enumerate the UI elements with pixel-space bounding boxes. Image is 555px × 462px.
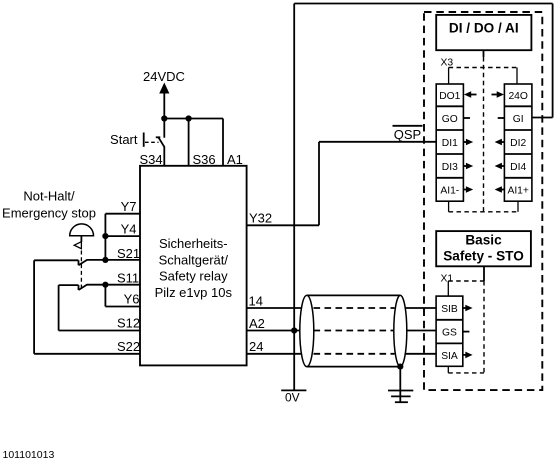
svg-text:Y7: Y7 bbox=[121, 199, 137, 214]
emergency stop mushroom actuator bbox=[70, 224, 94, 291]
stub GI bbox=[498, 117, 505, 119]
bus dashed center line bbox=[483, 57, 485, 212]
svg-text:24O: 24O bbox=[508, 91, 527, 102]
ground earth symbol bbox=[388, 391, 413, 403]
svg-text:Start: Start bbox=[110, 132, 138, 147]
svg-text:GO: GO bbox=[442, 114, 458, 125]
wire Y7-Y4-S21 vertical bbox=[104, 214, 106, 260]
arrow DI1 in bbox=[463, 139, 473, 146]
svg-text:A1: A1 bbox=[227, 152, 243, 167]
wire header stub bbox=[483, 50, 485, 57]
node S11 junction bbox=[102, 282, 108, 288]
svg-text:24: 24 bbox=[249, 339, 263, 354]
svg-text:X1: X1 bbox=[441, 274, 454, 285]
arrow DI4 in bbox=[495, 163, 505, 170]
svg-text:Safety relay: Safety relay bbox=[159, 269, 228, 284]
svg-text:DI3: DI3 bbox=[442, 162, 458, 173]
stub GS bbox=[463, 331, 470, 333]
svg-text:Pilz e1vp 10s: Pilz e1vp 10s bbox=[155, 285, 233, 300]
wire S12 bbox=[59, 330, 140, 332]
wire A2 solid left bbox=[247, 330, 303, 332]
svg-text:AI1-: AI1- bbox=[440, 186, 459, 197]
svg-text:Schaltgerät/: Schaltgerät/ bbox=[159, 252, 229, 267]
switch S34 Start pushbutton bbox=[110, 132, 164, 166]
node S21 junction bbox=[102, 257, 108, 263]
wire Y32 riser bbox=[318, 142, 320, 226]
node S34 rail junction bbox=[161, 115, 167, 121]
QSP overline bbox=[393, 125, 423, 127]
node shield junction bbox=[397, 364, 403, 370]
arrow AI1+ in bbox=[495, 186, 505, 193]
svg-text:A2: A2 bbox=[249, 316, 265, 331]
wire 24VDC down bbox=[163, 92, 165, 119]
svg-text:101101013: 101101013 bbox=[3, 449, 55, 461]
svg-text:DI1: DI1 bbox=[442, 138, 458, 149]
wire Basic stub bbox=[483, 266, 485, 281]
svg-text:S21: S21 bbox=[117, 246, 140, 261]
ground 0V bar bbox=[281, 389, 306, 391]
wire A2 dashed in cable bbox=[314, 330, 395, 332]
Basic Safety - STO header box bbox=[436, 231, 531, 266]
svg-text:S36: S36 bbox=[193, 152, 216, 167]
arrow DI3 in bbox=[463, 163, 473, 170]
wire shield to earth bbox=[399, 367, 401, 402]
svg-text:GI: GI bbox=[513, 114, 524, 125]
svg-text:Not-Halt/: Not-Halt/ bbox=[23, 189, 75, 204]
svg-text:S11: S11 bbox=[117, 271, 139, 286]
svg-text:24VDC: 24VDC bbox=[143, 69, 185, 84]
wire 24 solid left bbox=[247, 353, 303, 355]
node A2-0V junction bbox=[291, 327, 297, 333]
svg-text:S34: S34 bbox=[140, 152, 163, 167]
wire right GI drop bbox=[552, 4, 554, 118]
cable shield body bbox=[300, 295, 407, 366]
svg-text:DO1: DO1 bbox=[439, 91, 460, 102]
connector X3 left column bbox=[436, 84, 463, 201]
relay K1 Sicherheits-Schaltgeraet box bbox=[140, 166, 247, 366]
X1 dashed bracket bbox=[448, 281, 484, 373]
wire top GI loop bbox=[294, 3, 552, 5]
svg-text:DI4: DI4 bbox=[510, 162, 526, 173]
24VDC arrow bbox=[159, 83, 169, 94]
wire Y4 bbox=[105, 235, 140, 237]
svg-text:Basic: Basic bbox=[465, 232, 502, 247]
X3 dashed bracket top bbox=[449, 68, 517, 85]
wire A1 pin bbox=[222, 119, 224, 166]
svg-text:AI1+: AI1+ bbox=[507, 186, 528, 197]
arrow 24O out bbox=[492, 91, 505, 98]
svg-text:0V: 0V bbox=[285, 391, 300, 405]
svg-text:DI2: DI2 bbox=[510, 138, 526, 149]
wire 24 solid right to SIA bbox=[398, 353, 436, 355]
svg-text:QSP: QSP bbox=[394, 127, 421, 142]
wire left drop to S22 bbox=[33, 260, 35, 354]
wire S21 bbox=[87, 259, 140, 261]
drive module dashed enclosure bbox=[424, 12, 542, 390]
svg-text:S22: S22 bbox=[117, 339, 140, 354]
svg-text:SIB: SIB bbox=[441, 304, 458, 315]
wire contact2 drop to S12 bbox=[58, 285, 60, 330]
switch e-stop contact 1 bbox=[34, 260, 87, 266]
wire 14 solid left bbox=[247, 307, 303, 309]
wire 0V vertical bbox=[293, 4, 295, 391]
wire S11-Y6 vertical bbox=[104, 285, 106, 307]
wire A2 solid right to GS bbox=[398, 330, 436, 332]
X3 dashed bracket bottom bbox=[449, 201, 518, 212]
svg-text:Sicherheits-: Sicherheits- bbox=[159, 236, 228, 251]
svg-text:GS: GS bbox=[442, 328, 457, 339]
arrow SIA out bbox=[463, 352, 473, 359]
connector X1 column bbox=[436, 296, 463, 366]
wire Y32 bbox=[247, 224, 319, 226]
wire S36 pin bbox=[188, 119, 190, 166]
svg-text:Y4: Y4 bbox=[121, 221, 137, 236]
wire QSP to DI1 bbox=[319, 141, 436, 143]
svg-text:DI / DO / AI: DI / DO / AI bbox=[449, 20, 519, 35]
wire S11 bbox=[87, 284, 140, 286]
wire 24 dashed in cable bbox=[314, 353, 395, 355]
arrow AI1- in bbox=[463, 186, 473, 193]
svg-text:Y32: Y32 bbox=[249, 211, 272, 226]
wire Y7 bbox=[105, 213, 140, 215]
wire 14 solid right to SIB bbox=[398, 307, 436, 309]
svg-text:Safety - STO: Safety - STO bbox=[443, 248, 524, 263]
wire S34 fixed contact drop bbox=[163, 119, 165, 138]
wire S22 bbox=[34, 353, 140, 355]
wire Y6 bbox=[105, 306, 140, 308]
svg-text:14: 14 bbox=[249, 293, 263, 308]
stub GO bbox=[463, 117, 470, 119]
svg-text:Emergency stop: Emergency stop bbox=[2, 206, 96, 221]
arrow DI2 in bbox=[495, 139, 505, 146]
DI / DO / AI header box bbox=[436, 15, 531, 50]
wire top rail bbox=[164, 118, 223, 120]
wire GI connection bbox=[532, 117, 553, 119]
switch e-stop contact 2 bbox=[59, 285, 88, 291]
node Y4 junction bbox=[102, 233, 108, 239]
wire 14 dashed in cable bbox=[314, 307, 395, 309]
connector X3 right column bbox=[504, 84, 532, 201]
svg-text:SIA: SIA bbox=[441, 351, 458, 362]
svg-text:Y6: Y6 bbox=[124, 292, 140, 307]
arrow DO1 out bbox=[464, 91, 477, 98]
arrow SIB out bbox=[463, 305, 473, 312]
node S36 rail junction bbox=[186, 115, 192, 121]
svg-text:S12: S12 bbox=[117, 316, 140, 331]
